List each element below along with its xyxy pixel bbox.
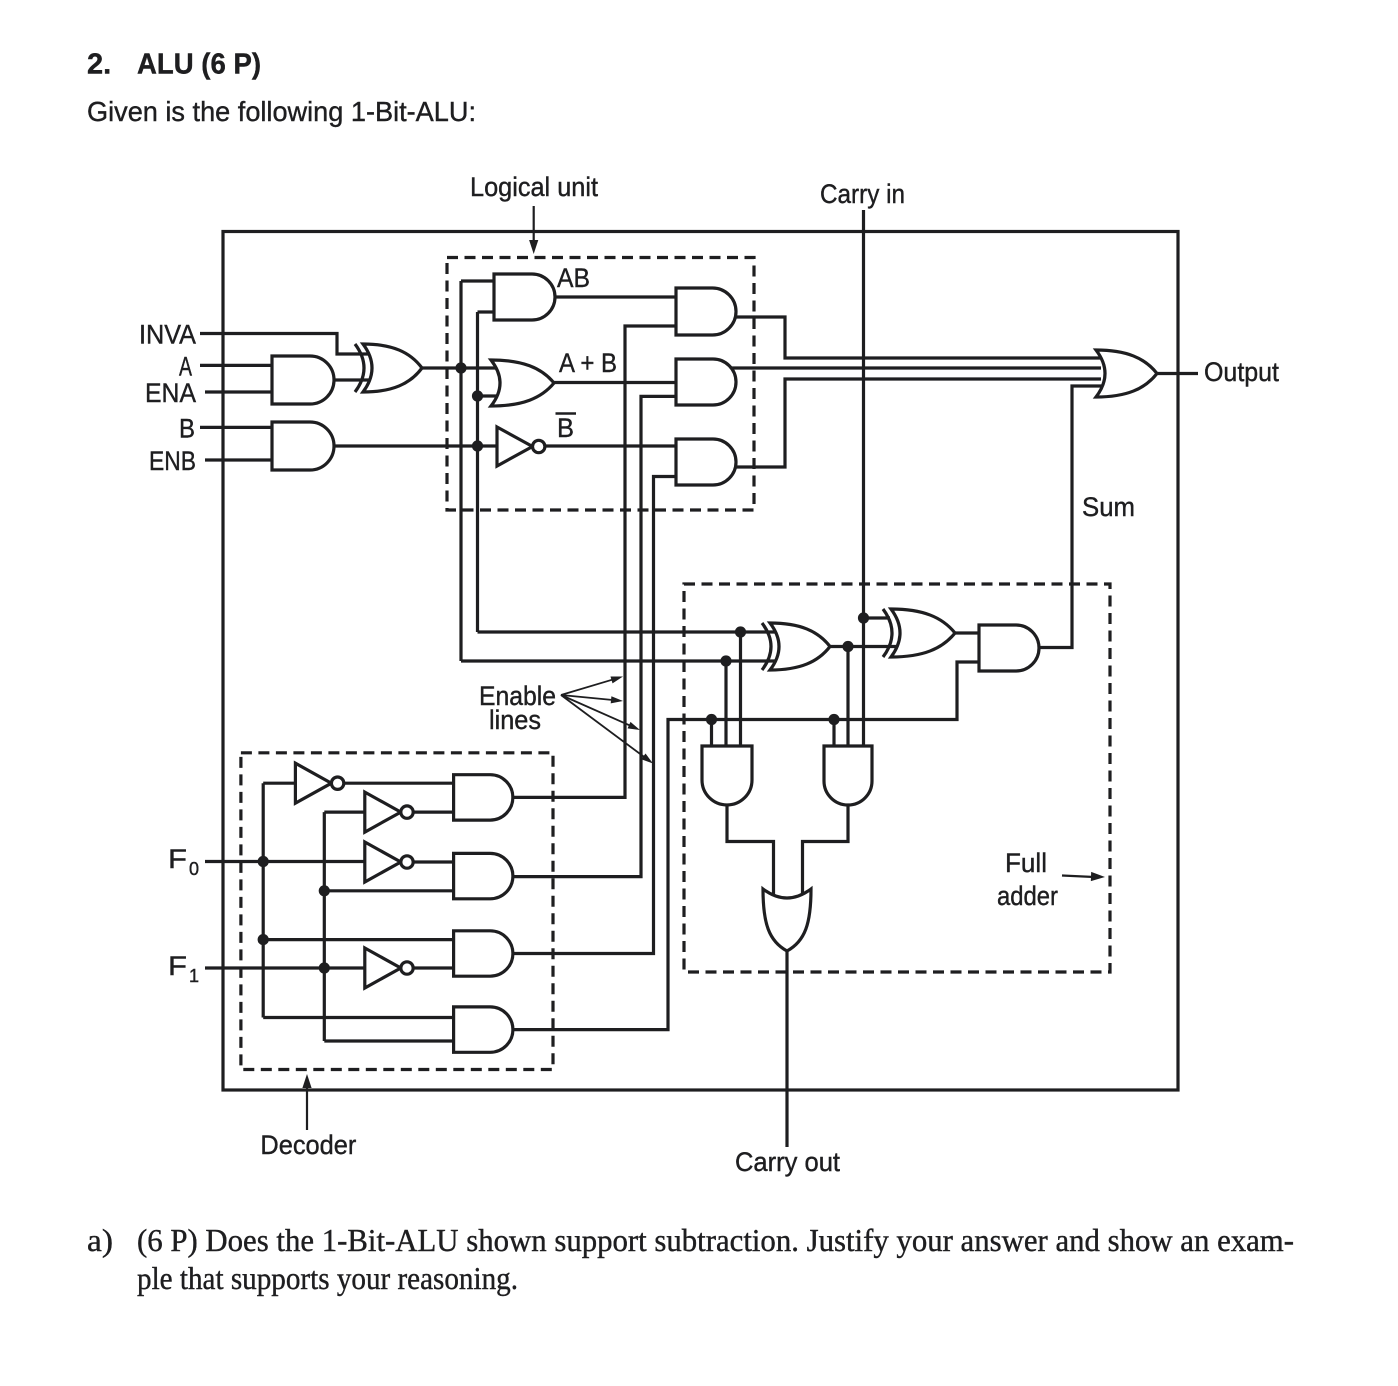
svg-text:INVA: INVA <box>139 320 196 350</box>
svg-text:ENB: ENB <box>149 446 196 476</box>
svg-text:Decoder: Decoder <box>260 1130 356 1160</box>
svg-text:AB: AB <box>557 263 590 293</box>
svg-text:adder: adder <box>997 881 1058 911</box>
svg-text:A + B: A + B <box>559 348 617 378</box>
svg-text:Logical unit: Logical unit <box>470 172 598 202</box>
svg-text:1: 1 <box>189 966 199 986</box>
svg-text:Given is the following 1-Bit-A: Given is the following 1-Bit-ALU: <box>87 96 476 127</box>
svg-text:(6 P) Does the 1-Bit-ALU shown: (6 P) Does the 1-Bit-ALU shown support s… <box>137 1222 1294 1258</box>
svg-text:F: F <box>168 844 187 874</box>
svg-text:B: B <box>557 413 574 443</box>
svg-text:B: B <box>179 413 195 443</box>
svg-text:Sum: Sum <box>1082 492 1135 522</box>
svg-text:ple that supports your reasoni: ple that supports your reasoning. <box>137 1260 518 1296</box>
svg-text:Carry in: Carry in <box>820 179 905 209</box>
svg-text:Full: Full <box>1005 848 1047 878</box>
svg-text:a): a) <box>87 1222 113 1258</box>
svg-text:lines: lines <box>489 705 541 735</box>
svg-text:2.: 2. <box>87 49 111 81</box>
svg-text:0: 0 <box>189 859 199 879</box>
svg-text:F: F <box>168 951 187 981</box>
svg-text:A: A <box>179 351 192 381</box>
svg-text:ALU (6 P): ALU (6 P) <box>137 49 261 81</box>
svg-text:Carry out: Carry out <box>735 1147 840 1177</box>
svg-text:Output: Output <box>1204 357 1279 387</box>
svg-text:ENA: ENA <box>145 378 196 408</box>
